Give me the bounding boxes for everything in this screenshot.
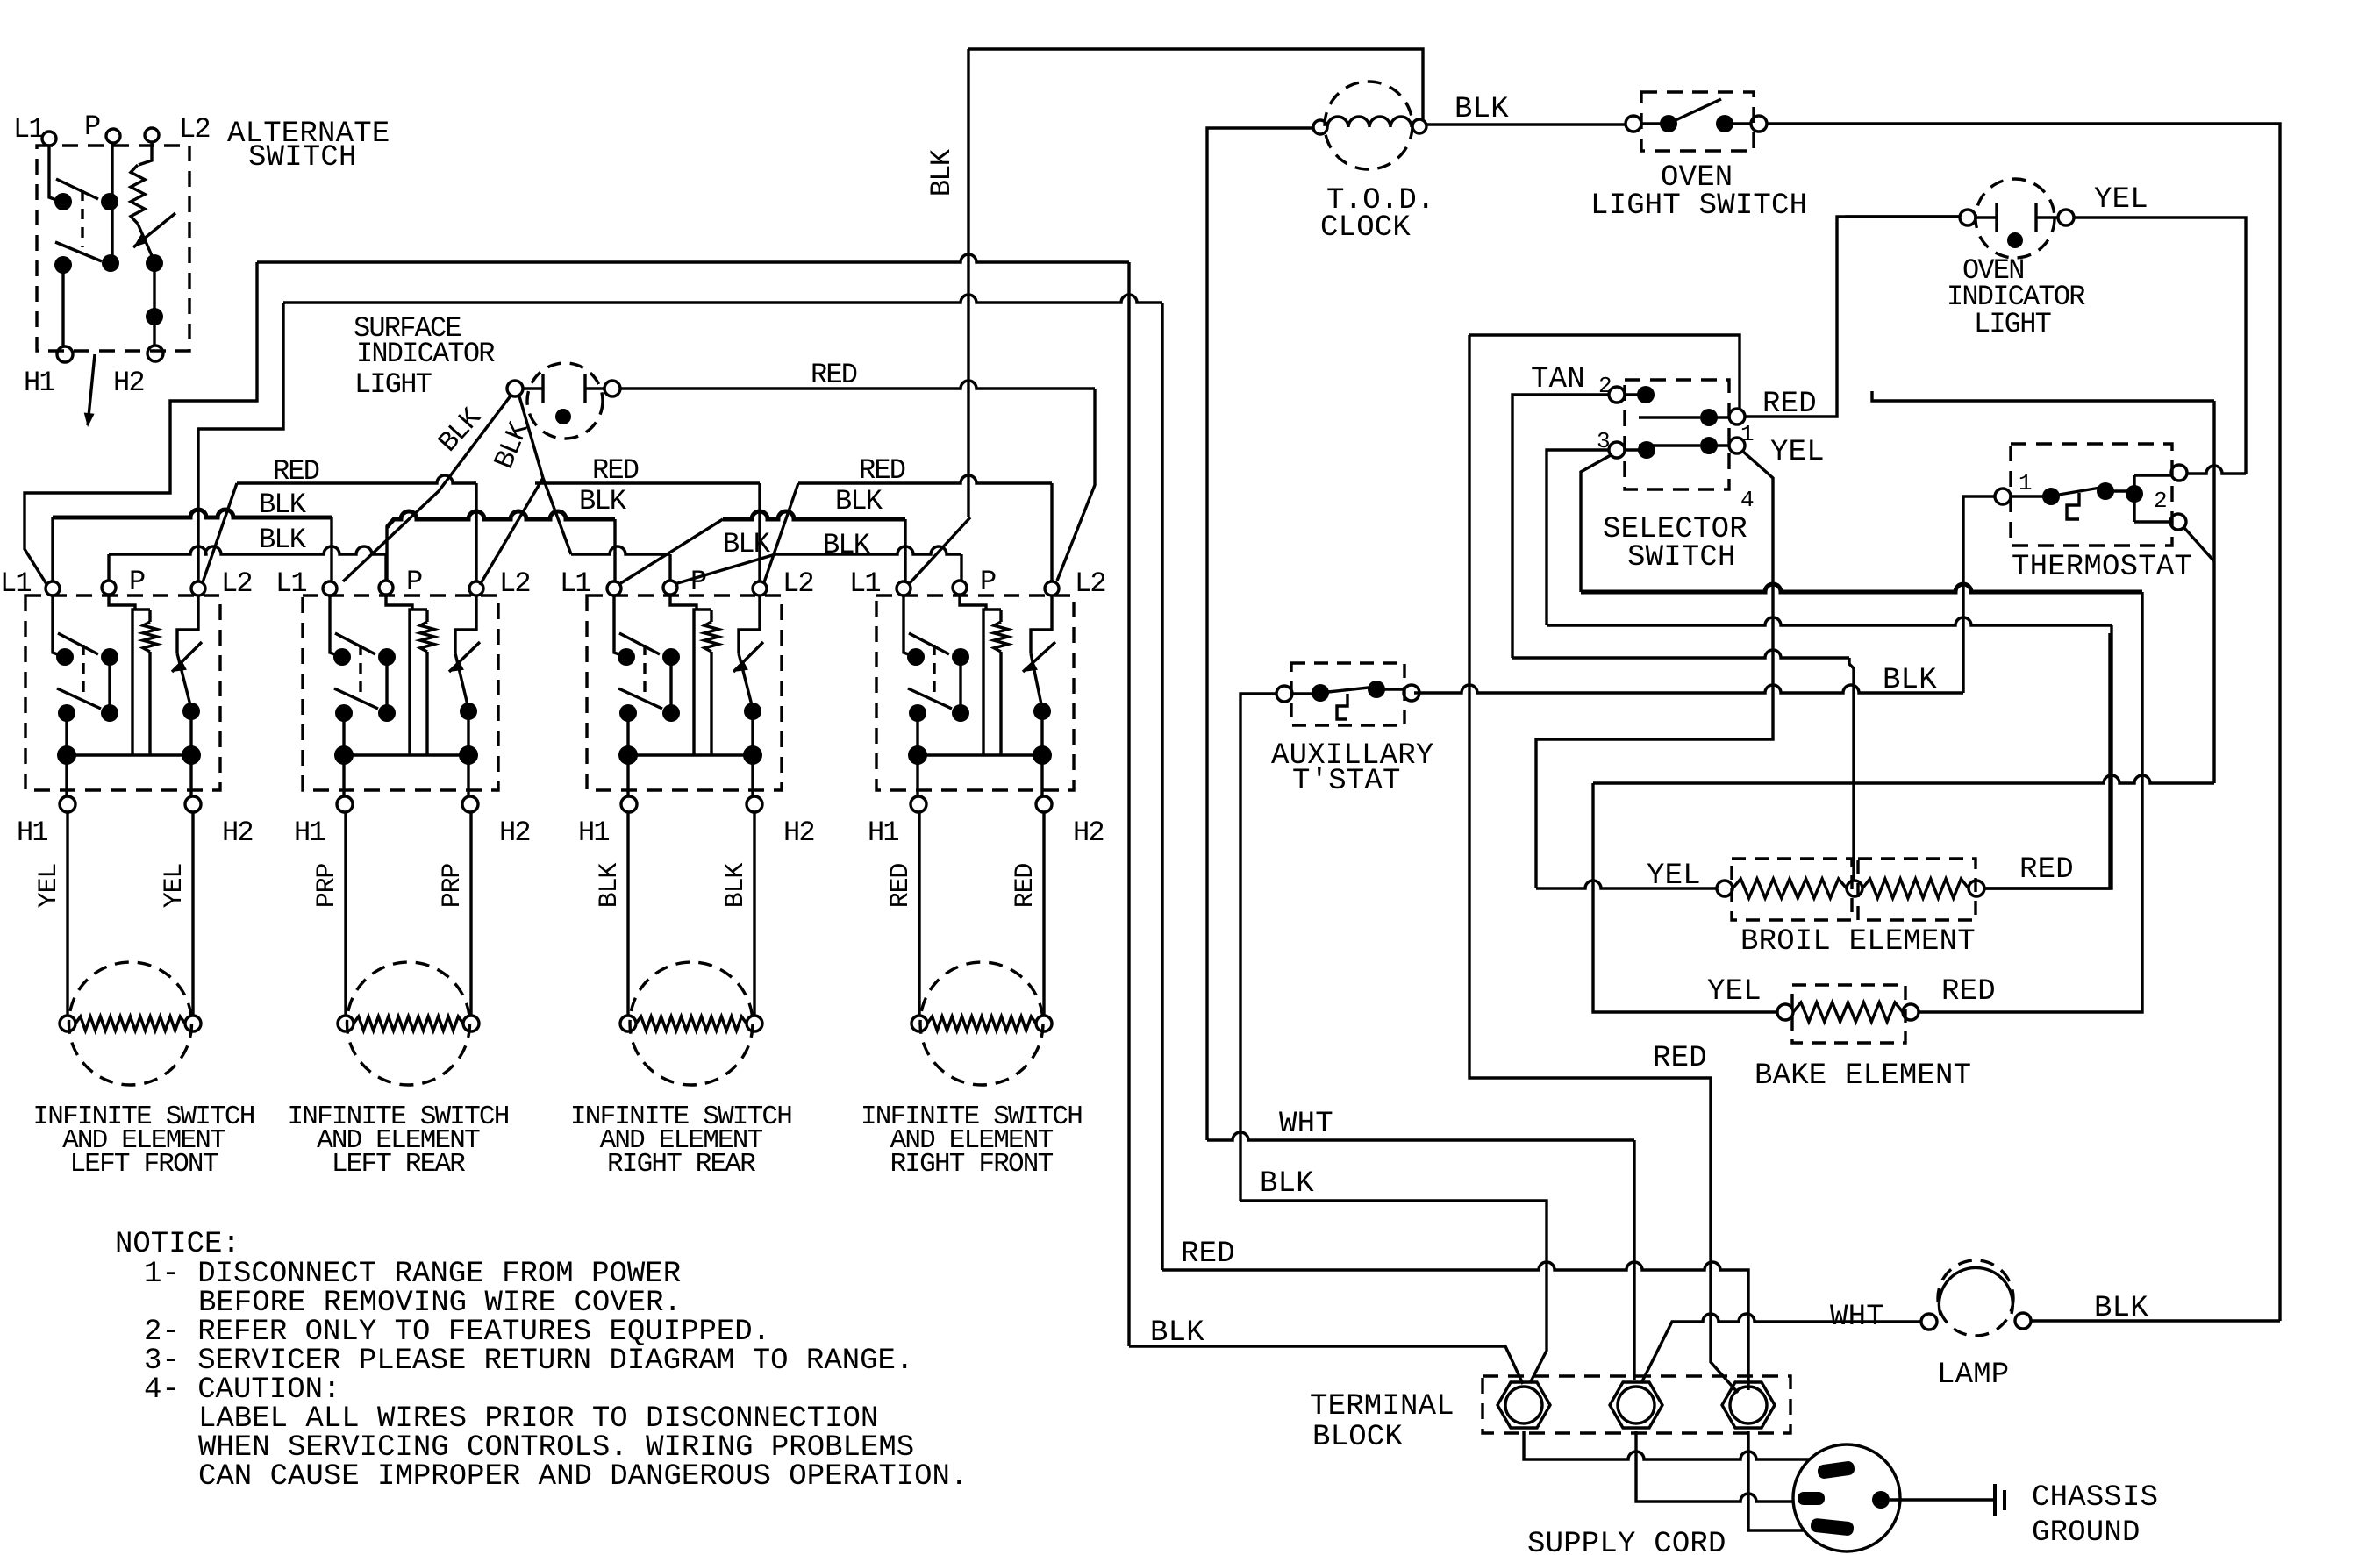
infinite switch right front: adjust arrow [1023, 642, 1055, 672]
svg-text:BLK: BLK [579, 485, 627, 517]
svg-text:PRP: PRP [438, 864, 468, 909]
svg-text:L1: L1 [0, 567, 31, 600]
element right rear: H2 lead wire [753, 812, 755, 1016]
oven light switch: right terminal [1751, 116, 1767, 132]
T.O.D. clock: right terminal [1412, 119, 1426, 133]
wire: bus C drop to broil center [1849, 658, 1854, 881]
infinite switch right rear: terminal L2 [753, 581, 767, 596]
wire: RED from selector 1 to indicator [1745, 217, 1959, 417]
infinite switch left front: terminal P [102, 581, 116, 595]
wire: BLK from lamp to right margin [2031, 1319, 2280, 1322]
infinite switch left front: switch blade lower [57, 688, 101, 709]
wire: BLK bus B segment 2 [571, 546, 670, 554]
chassis ground: symbol [1995, 1484, 2005, 1516]
infinite switch left rear: pilot heater bracket [410, 610, 427, 755]
oven indicator light: plates and leads [1976, 203, 2058, 232]
alternate switch: P internal wire [111, 143, 113, 260]
svg-text:BLK: BLK [823, 529, 871, 561]
infinite switch left rear: terminal P [379, 581, 393, 595]
svg-text:RED: RED [1941, 975, 1996, 1009]
svg-text:TAN: TAN [1531, 363, 1585, 396]
infinite switch right front: terminal H1 [911, 796, 926, 812]
svg-text:P: P [406, 566, 422, 598]
svg-text:L1: L1 [13, 113, 44, 146]
svg-text:YEL: YEL [160, 864, 189, 909]
svg-text:SUPPLY CORD: SUPPLY CORD [1527, 1528, 1726, 1555]
infinite switch left rear: bottom tie bar [344, 753, 468, 756]
svg-text:BLK: BLK [835, 485, 883, 517]
svg-text:H2: H2 [113, 367, 144, 399]
infinite switch right rear: contact dots left column [618, 648, 635, 666]
infinite switch right rear: L1 internal wire [614, 596, 626, 657]
infinite switch left rear: pilot heater resistor [425, 610, 428, 622]
infinite switch left rear: terminal H2 [462, 796, 478, 812]
wire: L2 left-front riser diagonal [203, 483, 237, 582]
selector switch: terminal 1 [1729, 409, 1745, 424]
infinite switch right front: H2 junction [1033, 745, 1052, 765]
svg-text:H1: H1 [868, 817, 898, 849]
infinite switch right rear: H2 junction [743, 745, 762, 765]
wire: BLK bus A segment 2 [387, 511, 615, 527]
infinite switch right rear: contact column wire [669, 657, 672, 713]
svg-text:BLK: BLK [259, 524, 307, 556]
infinite switch left rear: dashed box [303, 596, 498, 790]
lamp: terminals [1921, 1314, 1937, 1330]
infinite switch right rear: terminal H2 [747, 796, 762, 812]
infinite switch left front: dashed box [25, 596, 220, 790]
infinite switch right rear: mechanical link (dashed) [643, 645, 646, 700]
wire: BLK bus B segment 1 [109, 546, 386, 554]
wire: RED wire drop and diagonal to L2 right front [1057, 389, 1095, 581]
thermostat: terminal 2 lower [2170, 514, 2186, 530]
svg-text:LIGHT SWITCH: LIGHT SWITCH [1590, 189, 1807, 223]
svg-text:RED: RED [1011, 864, 1040, 909]
infinite switch right rear: pilot heater resistor [710, 610, 712, 622]
selector switch: terminal 2 [1609, 387, 1625, 403]
element right rear: terminal circles [620, 1016, 636, 1031]
alternate switch: blade upper [56, 179, 98, 199]
alternate switch: mechanical link [81, 190, 83, 247]
element left front: terminal circles [60, 1016, 75, 1031]
wire: aux t'stat left loop (BLK to terminal block) [1240, 694, 1276, 1201]
wire: BLK A seg2 drop to L1 right rear [613, 519, 616, 581]
wire: thermostat feed drop [2212, 401, 2215, 783]
infinite switch right rear: pilot heater bracket [694, 610, 711, 755]
svg-text:H1: H1 [294, 817, 325, 849]
wire: indicator left horizontal [1845, 215, 1960, 218]
wire: indicator BLK diagonal to L1 left rear [343, 395, 511, 581]
wire: BLK to right margin [1767, 124, 2280, 1321]
svg-text:RIGHT FRONT: RIGHT FRONT [890, 1149, 1054, 1180]
infinite switch left rear: terminal L1 [323, 581, 337, 596]
auxiliary t'stat: right terminal [1404, 685, 1419, 701]
element left rear: dashed circle [347, 962, 470, 1085]
infinite switch right front: terminal L1 [897, 581, 911, 596]
infinite switch left front: terminal H1 [60, 796, 75, 812]
svg-text:RIGHT REAR: RIGHT REAR [607, 1149, 755, 1180]
wire: bus A drop to bake right [1919, 592, 2142, 1012]
infinite switch left rear: switch blade lower [334, 688, 378, 709]
infinite switch left rear: P internal wire [386, 595, 412, 610]
infinite switch right front: L2 internal wire [1031, 596, 1052, 653]
infinite switch right front: mechanical link (dashed) [933, 645, 935, 700]
infinite switch left front: adjust arrow [172, 642, 202, 672]
svg-text:L1: L1 [275, 567, 306, 600]
oven indicator light: dashed circle [1976, 179, 2055, 258]
auxiliary t'stat: dashed box [1291, 663, 1404, 725]
wire: thermostat feed horizontal [1872, 391, 2214, 401]
infinite switch right rear: H1 junction wire [626, 713, 629, 796]
infinite switch left rear: L2 internal wire [455, 596, 476, 653]
infinite switch right front: terminal L2 [1045, 581, 1059, 596]
wire: BLK from aux t'stat to left post [1240, 1201, 1547, 1383]
svg-text:LEFT REAR: LEFT REAR [332, 1149, 465, 1180]
chassis ground: wire [1890, 1498, 1993, 1501]
wire: indicator RED wire to right [620, 381, 1095, 389]
svg-text:PRP: PRP [312, 864, 342, 909]
supply cord: prongs [1817, 1460, 1855, 1480]
infinite switch right front: L1 internal wire [904, 596, 916, 657]
element right front: dashed circle [920, 962, 1043, 1085]
infinite switch right rear: switch blade lower [618, 688, 662, 709]
auxiliary t'stat: left terminal [1276, 686, 1292, 702]
svg-text:GROUND: GROUND [2032, 1516, 2141, 1550]
svg-text:T'STAT: T'STAT [1292, 765, 1401, 798]
wire: line B (RED feed) [283, 295, 1162, 303]
infinite switch right rear: terminal P [663, 581, 677, 595]
alternate switch: resistor [131, 165, 145, 224]
infinite switch left rear: thermostat blade [455, 653, 468, 709]
T.O.D. clock: coil [1327, 117, 1412, 127]
infinite switch left front: pilot heater bracket [132, 610, 150, 755]
bake element: dashed box [1792, 985, 1905, 1043]
wire: selector 3 blade drop [1581, 455, 1611, 592]
terminal block: post 1 [1497, 1382, 1550, 1428]
svg-text:BLK: BLK [1260, 1167, 1314, 1201]
infinite switch left rear: H2 contact wire [467, 711, 469, 755]
infinite switch right front: thermostat blade [1031, 653, 1042, 709]
wire: RED from selector to right post [1469, 335, 1738, 1393]
wire: selector 4 YEL drop [1536, 451, 1773, 888]
infinite switch right front: pilot heater resistor [999, 610, 1002, 622]
alternate switch: blade lower [55, 242, 102, 261]
wire: RED bus segment 1 [237, 475, 476, 483]
infinite switch left front: H2 contact wire [189, 711, 192, 755]
infinite switch right front: P internal wire [960, 595, 986, 610]
element left front: resistance wire [75, 1016, 185, 1031]
svg-text:YEL: YEL [1770, 436, 1825, 469]
infinite switch right front: H1 junction wire [916, 713, 918, 796]
wire: line A left staircase to L1 of left front switch [25, 262, 257, 584]
infinite switch right front: H2 contact wire [1040, 711, 1043, 755]
broil element: resistors [1733, 879, 1847, 898]
svg-text:CAN CAUSE IMPROPER AND DANGERO: CAN CAUSE IMPROPER AND DANGEROUS OPERATI… [198, 1460, 968, 1494]
wire: TAN loop to selector 2 [1512, 395, 1609, 658]
broil element: terminals [1717, 881, 1733, 896]
alternate switch: H1 wire [61, 265, 64, 346]
infinite switch left rear: contact column wire [385, 657, 388, 713]
thermostat: bellows link [2067, 493, 2079, 519]
element left rear: H1 lead wire [344, 812, 347, 1016]
alternate switch: terminal P [106, 129, 120, 143]
wire: T.O.D. left feed (WHT drop) [1207, 128, 1313, 1140]
svg-text:P: P [980, 566, 996, 598]
alternate switch: terminal H2 [147, 346, 163, 361]
selector switch: terminal 3 [1609, 442, 1625, 458]
svg-text:BLK: BLK [259, 489, 307, 521]
T.O.D. clock: dashed circle [1325, 82, 1412, 169]
svg-text:L2: L2 [1075, 567, 1105, 600]
svg-text:LEFT FRONT: LEFT FRONT [69, 1149, 218, 1180]
infinite switch left front: H1 junction wire [65, 713, 68, 796]
infinite switch right front: terminal H2 [1036, 796, 1052, 812]
svg-text:H1: H1 [578, 817, 609, 849]
element right rear: H1 lead wire [626, 812, 629, 1016]
lamp: filament loop [1939, 1267, 2012, 1315]
oven indicator light: dot [2007, 232, 2023, 248]
svg-text:SWITCH: SWITCH [1627, 541, 1736, 574]
wire: bus A [1581, 584, 2142, 592]
surface indicator light: right terminal [604, 381, 620, 396]
auxiliary t'stat: bellows link [1337, 694, 1347, 719]
lamp: dashed circle [1938, 1260, 2013, 1336]
wire: YEL into broil left [1536, 881, 1717, 888]
svg-text:BLK: BLK [1883, 664, 1937, 697]
wire: line A right drop [1127, 262, 1130, 1346]
broil element: dashed boxes [1732, 859, 1852, 920]
svg-text:LIGHT: LIGHT [1974, 308, 2051, 340]
svg-text:RED: RED [592, 454, 639, 487]
wire: post1 to supply cord [1524, 1431, 1810, 1459]
svg-text:NOTICE:: NOTICE: [115, 1228, 240, 1261]
infinite switch left front: switch blade upper [58, 633, 98, 654]
wire: broil right riser [1984, 633, 2110, 888]
wire: bus B drop to broil right [1984, 625, 2112, 888]
alternate switch: lower contact dots [146, 254, 163, 272]
wire: WHT to lamp [1641, 1314, 1921, 1383]
svg-text:H2: H2 [1073, 817, 1104, 849]
wire: selector 3 left loop [1547, 450, 1609, 625]
alternate switch: resistor blade [138, 224, 154, 260]
oven light switch: contacts [1660, 115, 1677, 132]
svg-text:BLK: BLK [723, 528, 771, 560]
svg-text:THERMOSTAT: THERMOSTAT [2012, 551, 2192, 584]
wire: line B left staircase to L2 of left front switch [198, 303, 283, 581]
svg-text:YEL: YEL [2094, 183, 2148, 217]
wire: WHT from clock to terminal block [1207, 1132, 1634, 1140]
thermostat: contacts [2042, 488, 2060, 505]
svg-text:WHT: WHT [1279, 1108, 1333, 1141]
wire: post3 to supply cord [1748, 1431, 1805, 1530]
infinite switch left rear: adjust arrow [449, 642, 480, 672]
svg-text:L2: L2 [783, 567, 813, 600]
infinite switch left front: contact dots left column [56, 648, 74, 666]
thermostat: bracket to terminals [2134, 475, 2172, 522]
infinite switch left rear: L1 internal wire [330, 596, 342, 657]
infinite switch right rear: bottom tie bar [628, 753, 753, 756]
infinite switch right front: contact column wire [959, 657, 961, 713]
svg-text:BROIL ELEMENT: BROIL ELEMENT [1740, 925, 1976, 959]
wire: BLK bus A segment 3 [723, 511, 905, 519]
oven indicator light: right terminal [2058, 210, 2074, 225]
element right front: H2 lead wire [1042, 812, 1045, 1016]
infinite switch left rear: terminal H1 [337, 796, 353, 812]
wire: riser to bake left [1593, 783, 1777, 1012]
svg-text:H2: H2 [222, 817, 253, 849]
wire: RED bus segment 2 [535, 481, 760, 484]
svg-text:LIGHT: LIGHT [354, 368, 432, 401]
wire: WHT drop to center post [1633, 1140, 1635, 1380]
svg-text:RED: RED [859, 454, 905, 487]
alternate switch: adjust arrow [133, 213, 175, 247]
infinite switch left front: L2 internal wire [177, 596, 198, 653]
thermostat: terminal 1 [1995, 489, 2011, 504]
wire: thermostat 2 lower diagonal [2184, 528, 2214, 561]
infinite switch left front: P internal wire [109, 595, 135, 610]
terminal block: post 2 [1610, 1382, 1662, 1428]
wire: apex diagonal to BLK B segment 2 [543, 478, 571, 554]
svg-text:BLOCK: BLOCK [1312, 1421, 1403, 1454]
infinite switch right front: bottom tie bar [918, 753, 1042, 756]
element left rear: terminal circles [338, 1016, 354, 1031]
wire: RED from line B to right post [1162, 1262, 1748, 1390]
alternate switch: contact dots [54, 193, 72, 210]
infinite switch left front: thermostat blade [177, 653, 191, 709]
wire: top BLK line [968, 49, 1423, 119]
svg-text:RED: RED [2019, 853, 2074, 887]
element right front: terminal circles [911, 1016, 927, 1031]
infinite switch left front: L1 internal wire [53, 596, 65, 657]
element right front: H1 lead wire [918, 812, 920, 1016]
svg-text:INDICATOR: INDICATOR [356, 338, 495, 370]
element left rear: resistance wire [354, 1016, 463, 1031]
wire: BLK bus B segment 3 [775, 546, 961, 554]
wire: bus B (selector 3 loop) [1547, 617, 2112, 625]
T.O.D. clock: left terminal [1313, 120, 1327, 134]
terminal block: dashed box [1483, 1376, 1790, 1433]
wire: BLK bus A segment 1 [53, 510, 332, 517]
alternate switch: terminal L1 [42, 132, 56, 146]
svg-text:TERMINAL: TERMINAL [1310, 1390, 1454, 1423]
wire: L2 right rear riser diagonal [764, 483, 798, 582]
svg-text:L2: L2 [499, 567, 530, 600]
wire: apex to L2 left rear [480, 478, 543, 585]
svg-text:P: P [84, 111, 100, 143]
selector switch: contacts [1637, 386, 1655, 403]
infinite switch left rear: H2 junction [459, 745, 478, 765]
auxiliary t'stat: contacts and blade [1312, 684, 1329, 702]
wire: BLK from clock to oven light switch [1426, 123, 1626, 125]
infinite switch right rear: terminal H1 [621, 796, 637, 812]
selector switch: dashed box [1625, 380, 1729, 489]
wire: RED seg1 drop to L2 of left rear [475, 483, 477, 581]
svg-text:CHASSIS: CHASSIS [2032, 1481, 2158, 1515]
selector switch: terminal 4 [1729, 438, 1745, 453]
svg-text:1: 1 [1740, 421, 1754, 447]
infinite switch left front: terminal H2 [185, 796, 201, 812]
oven light switch: left terminal [1626, 116, 1641, 132]
alternate switch: pointer arrow [88, 354, 95, 425]
supply cord: circle [1793, 1444, 1900, 1551]
bake element: resistor [1793, 1002, 1903, 1022]
wire: P right rear diagonal to BLK B segment 3 [675, 554, 775, 584]
infinite switch right rear: H2 contact wire [751, 711, 754, 755]
wire: thermostat 1 to BLK bus D [1963, 496, 1995, 693]
svg-text:L1: L1 [849, 567, 880, 600]
svg-text:YEL: YEL [34, 864, 64, 909]
svg-text:L2: L2 [179, 113, 210, 146]
svg-text:RED: RED [1653, 1042, 1707, 1075]
element right rear: dashed circle [630, 962, 753, 1085]
wire: BLK A seg1 risers [53, 517, 332, 581]
terminal block: post 3 [1722, 1382, 1775, 1428]
infinite switch left front: terminal L1 [46, 581, 60, 596]
svg-text:CLOCK: CLOCK [1320, 211, 1411, 245]
infinite switch left rear: terminal L2 [469, 581, 483, 596]
svg-text:SWITCH: SWITCH [248, 141, 357, 175]
element left rear: H2 lead wire [469, 812, 472, 1016]
element left front: H1 lead wire [66, 812, 68, 1016]
infinite switch left front: terminal L2 [191, 581, 205, 596]
infinite switch left rear: switch blade upper [335, 633, 375, 654]
infinite switch right rear: terminal L1 [607, 581, 621, 596]
wire: BLK B seg2 drop to P right rear [668, 554, 671, 581]
alternate switch: dashed box [37, 146, 189, 351]
svg-text:4: 4 [1740, 487, 1754, 513]
wire: line A (BLK feed, top) [257, 254, 1129, 262]
infinite switch right rear: thermostat blade [739, 653, 753, 709]
infinite switch right front: dashed box [876, 596, 1074, 790]
infinite switch right rear: dashed box [587, 596, 782, 790]
thermostat: dashed box [2011, 444, 2172, 546]
svg-text:BAKE ELEMENT: BAKE ELEMENT [1755, 1059, 1971, 1093]
wire: selector 2 loop bus C [1512, 650, 1849, 658]
surface indicator light: plates and leads [523, 374, 604, 403]
wire: y893 link [1593, 775, 2214, 783]
svg-text:BLK: BLK [2094, 1292, 2148, 1325]
infinite switch left front: bottom tie bar [67, 753, 191, 756]
alternate switch: terminal H1 [57, 346, 73, 362]
wire: indicator BLK diagonal to apex [519, 396, 543, 478]
wire: line B right drop [1161, 303, 1163, 1270]
svg-text:2: 2 [2154, 488, 2167, 514]
svg-text:RED: RED [886, 864, 916, 909]
wire: BLK bus D [1414, 685, 1963, 693]
oven indicator light: left terminal [1960, 210, 1976, 225]
wire: RED seg3 drop to L2 right front [1050, 483, 1053, 581]
oven light switch: dashed box [1641, 92, 1754, 151]
supply cord: ground pin [1872, 1491, 1890, 1509]
element right rear: resistance wire [636, 1016, 747, 1031]
infinite switch right front: switch blade upper [909, 633, 949, 654]
wire: L1 right front diagonal to BLK vertical [909, 517, 970, 584]
wire: long BLK vertical [967, 49, 969, 517]
infinite switch left front: pilot heater resistor [148, 610, 151, 622]
infinite switch right rear: switch blade upper [619, 633, 660, 654]
wire: post2 to supply cord [1636, 1431, 1793, 1502]
alternate switch: L1 internal wire [49, 146, 61, 202]
infinite switch right front: terminal P [953, 581, 967, 595]
svg-text:BLK: BLK [1150, 1316, 1204, 1350]
infinite switch left front: H2 junction [182, 745, 201, 765]
wire: RED seg2 drop to L2 right rear [758, 483, 761, 581]
wire: BLK A seg2 jog into P left rear [385, 526, 388, 581]
svg-text:L2: L2 [221, 567, 252, 600]
svg-text:BLK: BLK [926, 148, 958, 196]
wire: BLK B seg1 risers [109, 554, 386, 581]
svg-text:P: P [690, 566, 706, 598]
svg-text:LAMP: LAMP [1937, 1359, 2009, 1392]
